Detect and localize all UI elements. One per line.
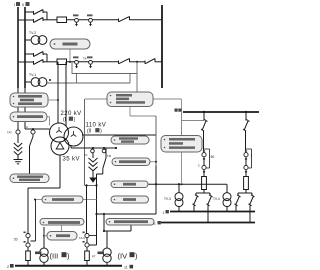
feeder2 disconnector lower <box>34 60 44 65</box>
junction 185 b <box>95 184 97 186</box>
main transformer T1 35kV winding <box>51 137 69 155</box>
svg-text:): ) <box>135 252 138 261</box>
neutral CT left <box>16 130 20 134</box>
TV-4 label <box>213 197 220 201</box>
35kV bus label 11 <box>124 265 133 270</box>
station transformer III <box>40 248 48 262</box>
PT label <box>92 255 96 259</box>
svg-text:50: 50 <box>211 155 215 159</box>
annotation box A3 <box>161 136 202 153</box>
station transformer IV <box>103 248 111 262</box>
main transformer T1 110kV winding <box>64 127 83 146</box>
feeder1 disconnector upper <box>34 10 44 15</box>
feeder2 wire to breaker <box>43 61 57 63</box>
bypass loop wire <box>72 62 137 92</box>
junction B3 leader <box>43 235 45 237</box>
annotation box L1 <box>10 93 48 107</box>
feeder1 line disconnector <box>119 17 130 22</box>
left col wire <box>27 238 29 251</box>
leader B3 <box>44 235 47 237</box>
neutral column left <box>17 88 19 130</box>
CT 35kV a <box>91 149 95 153</box>
leader B1 right <box>83 199 97 201</box>
right col1 breaker <box>202 177 207 190</box>
35kV bus label 2 <box>7 264 14 269</box>
TV-1 voltage transformer <box>25 78 47 87</box>
110kV bus <box>183 111 259 113</box>
right col2 drop <box>245 112 247 121</box>
station transformer III to bus <box>43 262 45 265</box>
leader L1 to wire <box>48 99 58 101</box>
transformer feed wire a <box>57 62 59 124</box>
junction L1 leader <box>57 99 59 101</box>
TV-3 to bus I <box>178 207 180 212</box>
110kV wire from transformer <box>82 134 156 136</box>
leader A3 cross <box>182 120 205 122</box>
feeder1 wire <box>18 12 47 20</box>
arrester stem <box>17 134 19 143</box>
right col1 disconnector <box>201 120 208 132</box>
left bypass <box>31 200 36 242</box>
svg-text:II: II <box>22 2 24 7</box>
svg-text:(III: (III <box>50 252 59 261</box>
TV-3 drop <box>178 184 180 192</box>
svg-text:1: 1 <box>163 211 165 215</box>
10kV bus I <box>170 211 255 213</box>
feeder2 tap from bus II <box>25 53 34 55</box>
right col2 breaker <box>244 177 249 190</box>
TV-1 label <box>29 73 36 77</box>
110 kV label <box>86 123 107 135</box>
arrester chevrons <box>14 143 22 155</box>
TM label <box>107 154 112 158</box>
arrester 35kV chevrons <box>89 158 98 171</box>
svg-text:TV-1: TV-1 <box>29 73 36 77</box>
svg-text:): ) <box>100 129 102 135</box>
right col2 disconnector left <box>235 195 241 206</box>
left PT fuse <box>26 251 31 261</box>
annotation box A2 <box>111 136 149 144</box>
svg-text:TA-9: TA-9 <box>79 236 85 240</box>
feeder2 disconnector right <box>145 59 155 64</box>
junction B1 leader <box>34 199 36 201</box>
right col2 to bus II <box>249 206 251 223</box>
svg-text:TM: TM <box>107 154 112 158</box>
35 kV label <box>63 157 80 163</box>
svg-text:35 kV: 35 kV <box>63 157 80 163</box>
label 2 right col2 <box>251 154 253 158</box>
annotation box A1 <box>107 92 153 107</box>
svg-text:II: II <box>154 222 156 226</box>
right col1 CT upper <box>202 150 206 160</box>
right col1 to bus I <box>193 206 195 212</box>
tick labels mid col <box>83 232 85 243</box>
TA label 35kV <box>84 153 88 157</box>
IV side label <box>118 252 139 261</box>
junction 214 b <box>103 213 105 215</box>
mid col feed a <box>86 185 88 233</box>
10kV bus I label <box>163 210 169 215</box>
leader L2 to transformer <box>47 117 50 126</box>
mid col to bus <box>86 261 88 266</box>
breaker 2 <box>57 59 67 65</box>
right col1 wire <box>203 131 205 153</box>
left col to bus <box>27 261 29 266</box>
TA label feeder2 <box>83 57 87 61</box>
neutral CT right <box>31 130 35 134</box>
mid col wire <box>86 238 88 251</box>
delta symbol <box>56 143 64 150</box>
right col1 wire <box>203 157 205 165</box>
svg-text:TA: TA <box>83 57 87 61</box>
annotation box B3 <box>47 232 77 241</box>
svg-text:(I: (I <box>63 117 66 123</box>
Y symbol 110 winding <box>71 131 77 137</box>
right col1 CT lower <box>202 165 206 172</box>
110kV bus label <box>175 109 182 112</box>
svg-text:TV-4: TV-4 <box>213 197 220 201</box>
TA-9 label <box>79 236 85 240</box>
label 50 right col1 <box>211 155 215 159</box>
breaker 1 <box>57 17 67 23</box>
annotation box L2 <box>10 112 47 122</box>
35kV bottom bus <box>15 265 122 267</box>
TV-4 drop <box>226 184 228 192</box>
220kV bus II <box>24 7 26 88</box>
svg-text:I: I <box>14 2 15 7</box>
mid col feed b <box>104 214 131 249</box>
feeder1 wire to line <box>130 19 163 21</box>
35kV disconnector <box>97 148 107 245</box>
station transformer IV label <box>98 252 105 255</box>
annotation box M2 <box>111 181 148 188</box>
junction 185 a <box>85 184 87 186</box>
station transformer III label <box>35 252 42 255</box>
right col2 bypass <box>246 149 252 168</box>
main transformer T1 220kV winding <box>50 123 69 142</box>
right col2 CT lower <box>244 165 248 172</box>
junction 214 a <box>95 213 97 215</box>
feeder2 wire <box>18 54 47 62</box>
svg-text:TV-2: TV-2 <box>29 31 36 35</box>
svg-text:PT: PT <box>92 255 96 259</box>
svg-text:): ) <box>74 117 76 123</box>
leader A1 left <box>85 98 107 100</box>
wire 184 row <box>148 183 227 185</box>
TV-3 transformer <box>175 193 183 207</box>
CT 1b <box>87 14 93 26</box>
right col2 split <box>238 190 252 196</box>
right col1 junction <box>203 111 205 113</box>
svg-text:1: 1 <box>198 164 200 168</box>
TV-4 transformer <box>223 193 231 207</box>
220 kV label <box>61 111 82 123</box>
leader M1 right <box>150 161 156 163</box>
neutral wire from bus <box>25 88 50 129</box>
feeder1 wire <box>67 19 119 21</box>
label 1 right col1 <box>198 164 200 168</box>
leader B2 to B3 <box>61 225 63 232</box>
svg-text:11: 11 <box>124 266 128 270</box>
annotation box B1 <box>42 196 83 203</box>
label 50 left col <box>14 238 18 242</box>
leader A3 top <box>181 112 183 136</box>
annotation box B4 <box>106 219 154 226</box>
right col1 disconnector right <box>207 195 213 206</box>
leader B1 <box>35 199 42 201</box>
35kV wire down <box>28 155 60 233</box>
junction 184 a <box>155 183 157 185</box>
right col2 junction <box>245 111 247 113</box>
annotation box M1 <box>112 158 150 166</box>
neutral disconnector <box>30 134 34 174</box>
wire 214 row <box>97 166 157 215</box>
neutral CT left label <box>7 131 12 135</box>
10kV bus II <box>161 222 255 224</box>
feeder1 disconnector lower <box>34 18 44 23</box>
TV-1 secondary wire <box>47 74 130 84</box>
right col2 wire <box>245 131 247 153</box>
CT 35kV b <box>102 149 106 153</box>
leader A3 bottom <box>181 152 183 184</box>
bus I label <box>14 2 20 7</box>
220kV line node (right vertical) <box>161 5 163 88</box>
left PT column circles <box>26 234 30 248</box>
junction 184 c <box>180 183 182 185</box>
right col1 drop <box>203 112 205 121</box>
svg-text:): ) <box>67 252 70 261</box>
junction 35kV b <box>103 147 105 149</box>
svg-text:2: 2 <box>251 154 253 158</box>
CT 2b <box>87 56 93 68</box>
junction TV-1 secondary <box>49 79 51 81</box>
right col2 disconnector right <box>249 195 255 206</box>
junction 35kV a <box>92 147 94 149</box>
right col2 disconnector <box>243 120 250 132</box>
mid bypass <box>89 236 96 245</box>
leader A1 right to bus <box>153 99 182 136</box>
tick labels left col <box>24 232 26 243</box>
ground 35kV <box>92 170 94 178</box>
junction 184 b <box>178 183 180 185</box>
arrester 35kV stem <box>92 153 94 158</box>
right col2 wire <box>245 157 247 165</box>
annotation box muxian <box>50 39 90 49</box>
svg-text:TV-3: TV-3 <box>164 197 171 201</box>
TV-3 label <box>164 197 171 201</box>
right col1 split <box>196 190 210 196</box>
feeder2 wire to line <box>155 61 162 63</box>
junction feeder2 right <box>136 61 138 63</box>
bus II label <box>22 2 30 7</box>
feeder2 disconnector upper <box>34 52 44 57</box>
right col2 to bus I <box>235 206 237 212</box>
right col1 disconnector left <box>193 195 199 206</box>
10kV bus II label <box>154 221 161 226</box>
ground left <box>14 155 23 164</box>
leader A1 bottom <box>130 107 156 117</box>
svg-text:(II: (II <box>87 129 91 135</box>
TV-2 voltage transformer <box>25 36 47 45</box>
transformer feed wire b <box>65 62 67 128</box>
svg-text:TA: TA <box>84 153 88 157</box>
mid PT fuse <box>85 251 90 261</box>
station transformer III wire <box>43 227 45 248</box>
annotation box B2 <box>40 219 84 226</box>
annotation box L3 neutral <box>10 174 49 183</box>
right col1 wire <box>203 170 205 177</box>
CT 1a <box>73 14 79 26</box>
III side label <box>50 252 71 261</box>
right col1 to bus II <box>207 206 209 223</box>
svg-text:2: 2 <box>7 265 9 269</box>
220kV bus I <box>17 7 19 88</box>
right col1 bypass <box>204 149 210 168</box>
neutral CT right label <box>25 125 29 129</box>
svg-text:(IV: (IV <box>118 252 128 261</box>
feeder1 tap from bus II <box>25 11 34 13</box>
TV-4 to bus I <box>226 207 228 212</box>
35kV branch wire <box>71 145 116 148</box>
junction neutral <box>32 128 34 130</box>
feeder1 wire to breaker <box>43 19 57 21</box>
svg-text:TA: TA <box>25 125 29 129</box>
feeder2 wire <box>67 61 119 63</box>
right col2 wire <box>245 170 247 177</box>
feeder2 wire <box>130 61 146 63</box>
CT 2a <box>73 56 79 68</box>
Y symbol 220 winding <box>56 127 62 133</box>
TV-2 label <box>29 31 36 35</box>
svg-text:TAT: TAT <box>7 131 12 135</box>
junction feed IV <box>103 230 105 232</box>
right col2 CT upper <box>244 150 248 160</box>
leader from muxian box to feeder2 <box>69 49 71 62</box>
junction M1 <box>155 161 157 163</box>
svg-text:50: 50 <box>14 238 18 242</box>
junction feeder2 left <box>69 61 71 63</box>
annotation box M3 <box>111 196 149 203</box>
feeder2 disconnector mid <box>119 59 130 64</box>
junction 35kV c <box>115 147 117 149</box>
mid PT column circles <box>85 234 89 248</box>
station transformer IV to bus <box>106 262 108 265</box>
